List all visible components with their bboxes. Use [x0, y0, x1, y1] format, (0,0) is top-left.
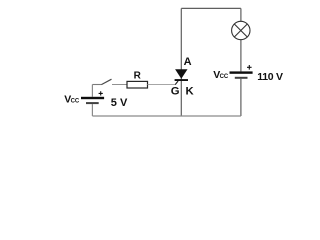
wire top: node between SCR anode branch and lamp branch — [181, 7, 241, 9]
wire switch left stub — [92, 84, 101, 86]
svg-text:K: K — [186, 86, 195, 98]
battery V2 top plate (+) — [230, 71, 253, 73]
SCR gate lead diagonal — [175, 81, 178, 85]
svg-text:110 V: 110 V — [257, 71, 283, 83]
svg-text:CC: CC — [220, 74, 229, 80]
battery V1 bottom plate (-) — [86, 102, 99, 104]
wire right vertical: lamp branch upper segment — [240, 8, 242, 71]
wire right vertical: below battery V2 to bottom rail — [240, 79, 242, 116]
battery V1 top plate (+) — [81, 97, 104, 99]
battery V2 bottom plate (-) — [235, 77, 248, 79]
battery V2 plus sign — [247, 65, 252, 70]
wire left column: battery V1 to switch and to bottom rail — [91, 85, 93, 117]
lamp L1 circle — [232, 21, 250, 39]
svg-text:CC: CC — [71, 98, 80, 104]
SCR cathode bar — [175, 79, 188, 81]
battery V1 plus sign — [99, 91, 103, 95]
wire bottom rail — [92, 115, 241, 117]
switch S1 blade (open) — [101, 79, 111, 84]
svg-text:A: A — [184, 56, 192, 68]
resistor R body — [127, 81, 148, 88]
wire gate: resistor to SCR gate — [148, 84, 176, 86]
wire switch right contact to resistor — [112, 84, 127, 86]
svg-text:5 V: 5 V — [111, 97, 128, 109]
wire left vertical: anode branch down to SCR and cathode to bottom rail — [180, 8, 182, 116]
SCR thyristor triangle (anode->cathode) — [175, 69, 187, 78]
lamp L1 X cross — [234, 24, 247, 37]
svg-text:R: R — [134, 70, 142, 81]
svg-text:G: G — [171, 86, 180, 98]
